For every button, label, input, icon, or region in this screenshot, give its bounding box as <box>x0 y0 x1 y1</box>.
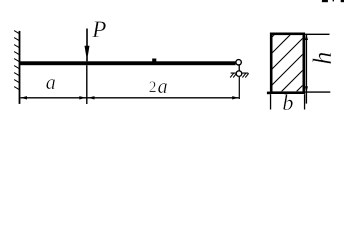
wall hatching ticks <box>14 31 20 90</box>
pin hinge circle at beam end <box>236 60 241 65</box>
cross-section rectangle <box>271 34 304 93</box>
roller support ground hatching <box>230 73 249 77</box>
svg-text:h: h <box>308 52 337 65</box>
dimension line a and 2a <box>20 97 238 99</box>
svg-text:a: a <box>158 76 168 98</box>
h top extension line <box>305 33 329 35</box>
h dim arrow bottom <box>305 86 308 92</box>
link stem between hinges <box>239 65 240 72</box>
dim arrow right at support <box>232 96 239 99</box>
b right extension line <box>304 94 305 109</box>
dim arrow right toward P line <box>79 96 86 99</box>
fixed support wall line <box>19 31 21 104</box>
h dimension line <box>306 34 307 103</box>
svg-text:a: a <box>46 72 56 94</box>
roller support ground line <box>231 72 249 74</box>
svg-text:b: b <box>282 90 293 115</box>
force P arrowhead <box>85 46 90 56</box>
svg-text:P: P <box>91 17 106 42</box>
extension line below force P <box>86 65 87 104</box>
dim arrow left from P line <box>88 96 95 99</box>
cross-section hatching <box>209 20 344 100</box>
small bump on beam top <box>152 59 156 62</box>
roller hinge circle <box>236 71 242 77</box>
bottom edge left overhang <box>267 92 271 95</box>
cropped text remnant marks at top edge <box>322 0 328 2</box>
dim arrow left at wall <box>20 96 27 99</box>
b left extension line <box>270 94 271 109</box>
beam <box>19 61 235 65</box>
force P stem <box>86 29 88 62</box>
h dim arrow top <box>305 34 308 40</box>
h bottom extension line <box>305 91 330 93</box>
svg-text:2: 2 <box>149 79 157 96</box>
extension line below roller <box>239 77 240 99</box>
